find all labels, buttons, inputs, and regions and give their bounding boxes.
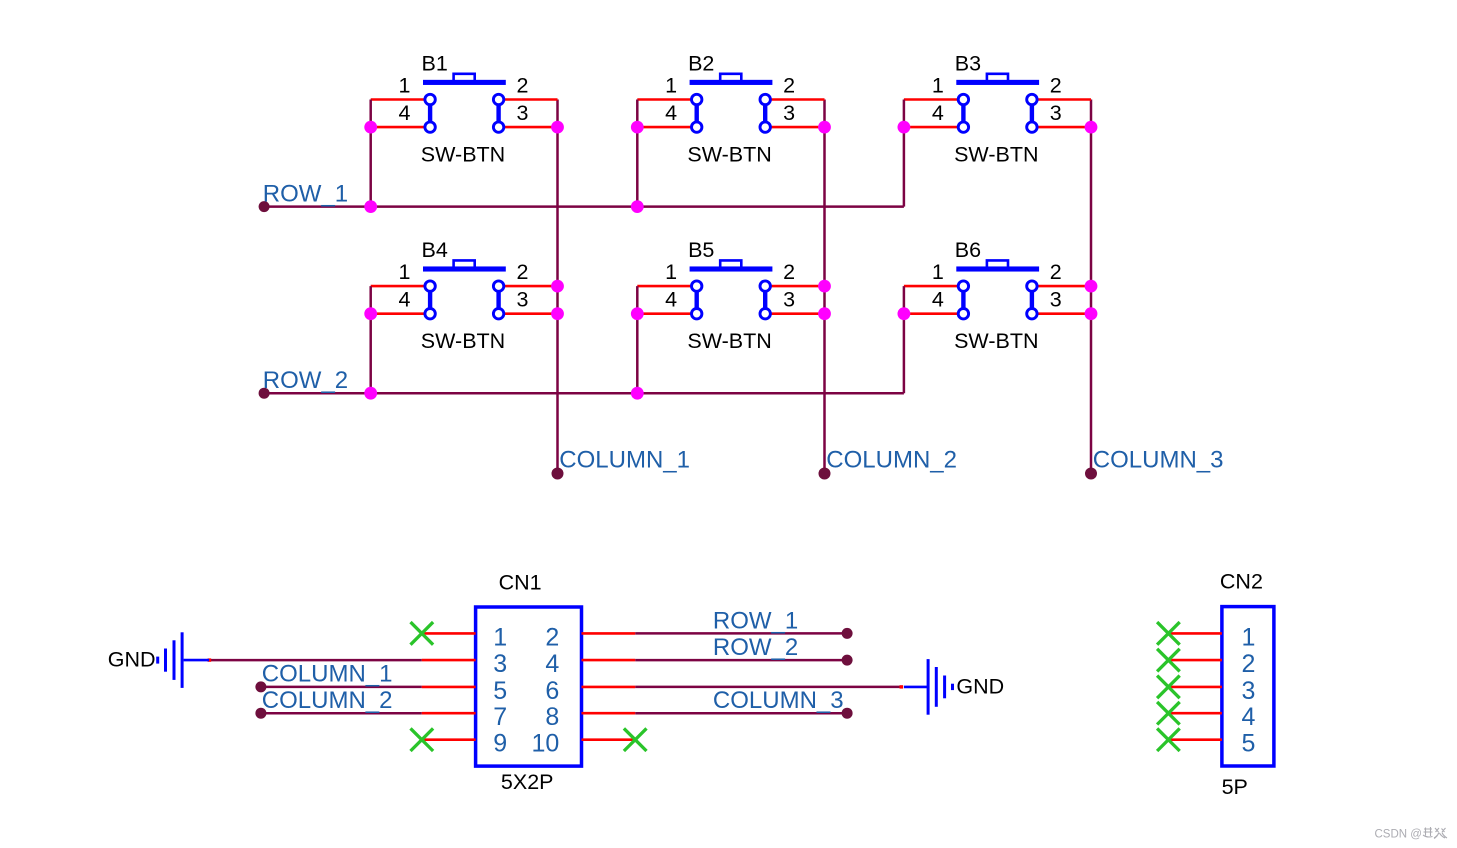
svg-text:4: 4 bbox=[665, 101, 677, 125]
no-connect CN1 pin1 bbox=[411, 622, 434, 645]
junction B6 pin2 column bbox=[1085, 280, 1098, 293]
svg-text:3: 3 bbox=[1050, 101, 1062, 125]
wire B6 pin3 bbox=[1032, 312, 1091, 315]
pin 3 CN2 stub bbox=[1168, 686, 1222, 689]
wire COLUMN_2 to CN1 pin7 bbox=[261, 712, 422, 715]
svg-text:8: 8 bbox=[545, 703, 559, 731]
wire COLUMN_3 to CN1 pin8 bbox=[635, 712, 847, 715]
wire B4 pin3 bbox=[499, 312, 558, 315]
node COLUMN_2 end bbox=[819, 468, 831, 480]
node ROW_1 end bbox=[259, 201, 270, 212]
wire B2 to ROW_1 bbox=[636, 100, 639, 207]
svg-text:3: 3 bbox=[1050, 288, 1062, 312]
no-connect CN2 pin2 bbox=[1157, 649, 1180, 672]
wire B3 to ROW_1 bbox=[903, 100, 906, 207]
wire B3 pin3 bbox=[1032, 126, 1091, 129]
svg-text:4: 4 bbox=[665, 288, 677, 312]
pin 4 CN1 stub bbox=[582, 659, 636, 662]
junction B6 pin3 column bbox=[1085, 307, 1098, 320]
switch B5 bbox=[690, 260, 773, 313]
wire B2 pin2 bbox=[765, 98, 824, 101]
ground GND left bbox=[158, 632, 209, 688]
wire B4 pin2 bbox=[499, 285, 558, 288]
pin 2 CN1 stub bbox=[582, 632, 636, 635]
svg-text:1: 1 bbox=[399, 260, 411, 284]
svg-text:3: 3 bbox=[517, 101, 529, 125]
svg-text:2: 2 bbox=[545, 623, 559, 651]
svg-text:5: 5 bbox=[1241, 730, 1255, 758]
pins B5 bbox=[692, 281, 771, 319]
svg-text:4: 4 bbox=[399, 101, 411, 125]
svg-text:3: 3 bbox=[517, 288, 529, 312]
svg-text:B1: B1 bbox=[422, 52, 448, 76]
pin 2 CN2 stub bbox=[1168, 659, 1222, 662]
wire B2 pin1 bbox=[637, 98, 696, 101]
junction ROW_2 x2 bbox=[631, 387, 644, 400]
svg-text:SW-BTN: SW-BTN bbox=[421, 329, 505, 353]
svg-text:SW-BTN: SW-BTN bbox=[954, 143, 1038, 167]
pin 1 CN1 stub bbox=[422, 632, 476, 635]
svg-text:4: 4 bbox=[932, 288, 944, 312]
switch B6 bbox=[956, 260, 1039, 313]
svg-text:GND: GND bbox=[956, 674, 1004, 698]
wire B6 to ROW_2 bbox=[903, 286, 906, 393]
svg-text:1: 1 bbox=[932, 260, 944, 284]
junction B5 pin2 column bbox=[818, 280, 831, 293]
junction B2 pin4 bbox=[631, 121, 644, 134]
wire B4 pin1 bbox=[371, 285, 430, 288]
svg-text:3: 3 bbox=[783, 101, 795, 125]
no-connect CN1 pin10 bbox=[624, 728, 647, 751]
svg-text:1: 1 bbox=[493, 623, 507, 651]
no-connect CN2 pin3 bbox=[1157, 676, 1180, 699]
wire COLUMN_1 vertical bbox=[556, 100, 559, 474]
svg-text:3: 3 bbox=[783, 288, 795, 312]
svg-text:2: 2 bbox=[517, 260, 529, 284]
svg-text:9: 9 bbox=[493, 730, 507, 758]
svg-text:10: 10 bbox=[531, 730, 559, 758]
wire ROW_2 to CN1 pin4 bbox=[635, 659, 847, 662]
node ROW_2 end bbox=[259, 388, 270, 399]
pins B2 bbox=[692, 94, 771, 132]
wire COLUMN_2 vertical bbox=[823, 100, 826, 474]
junction ROW_2 x1 bbox=[364, 387, 377, 400]
junction B6 pin4 bbox=[898, 307, 911, 320]
svg-text:SW-BTN: SW-BTN bbox=[421, 143, 505, 167]
svg-text:4: 4 bbox=[932, 101, 944, 125]
svg-text:COLUMN_3: COLUMN_3 bbox=[1093, 447, 1224, 474]
svg-text:B6: B6 bbox=[955, 238, 981, 262]
wire B6 pin1 bbox=[904, 285, 964, 288]
junction B2 pin3 column bbox=[818, 121, 831, 134]
pin 7 CN1 stub bbox=[422, 712, 476, 715]
wire ROW_2 bus bbox=[264, 392, 904, 395]
wire B5 pin1 bbox=[637, 285, 696, 288]
node COLUMN_3 end bbox=[1085, 468, 1097, 480]
svg-text:1: 1 bbox=[1241, 623, 1255, 651]
pin 8 CN1 stub bbox=[582, 712, 636, 715]
pin 4 CN2 stub bbox=[1168, 712, 1222, 715]
svg-text:CN2: CN2 bbox=[1220, 569, 1263, 593]
svg-text:5P: 5P bbox=[1222, 775, 1248, 799]
svg-text:GND: GND bbox=[108, 648, 156, 672]
wire GND to CN1 pin3 bbox=[209, 659, 422, 662]
no-connect CN2 pin1 bbox=[1157, 622, 1180, 645]
node ROW_1 end bottom bbox=[842, 628, 853, 639]
svg-text:2: 2 bbox=[1241, 650, 1255, 678]
no-connect CN2 pin4 bbox=[1157, 702, 1180, 725]
wire B2 pin4 bbox=[637, 126, 696, 129]
wire B1 to ROW_1 bbox=[369, 100, 372, 207]
connector CN2 bbox=[1222, 607, 1274, 766]
svg-text:2: 2 bbox=[783, 260, 795, 284]
ground GND right bbox=[904, 659, 953, 715]
junction B4 pin4 bbox=[364, 307, 377, 320]
svg-text:B4: B4 bbox=[422, 238, 448, 262]
svg-text:CN1: CN1 bbox=[499, 571, 542, 595]
svg-text:2: 2 bbox=[1050, 73, 1062, 97]
svg-text:COLUMN_3: COLUMN_3 bbox=[713, 687, 844, 714]
node COLUMN_3 end bottom bbox=[842, 708, 853, 719]
node ROW_2 end bottom bbox=[842, 655, 853, 666]
pin 9 CN1 stub bbox=[422, 738, 476, 741]
svg-text:1: 1 bbox=[399, 73, 411, 97]
wire B3 pin2 bbox=[1032, 98, 1091, 101]
svg-text:B5: B5 bbox=[688, 238, 714, 262]
wire B5 pin4 bbox=[637, 312, 696, 315]
junction B4 pin3 column bbox=[551, 307, 564, 320]
wire ROW_1 bus bbox=[264, 205, 904, 208]
svg-text:1: 1 bbox=[665, 260, 677, 284]
wire ROW_1 to CN1 pin2 bbox=[635, 632, 847, 635]
svg-text:2: 2 bbox=[1050, 260, 1062, 284]
pins B1 bbox=[425, 94, 504, 132]
wire B5 pin2 bbox=[765, 285, 824, 288]
wire B3 pin1 bbox=[904, 98, 964, 101]
svg-text:COLUMN_2: COLUMN_2 bbox=[262, 687, 393, 714]
svg-text:CSDN @: CSDN @ bbox=[1375, 828, 1422, 840]
junction B1 pin3 column bbox=[551, 121, 564, 134]
pin 1 CN2 stub bbox=[1168, 632, 1222, 635]
pin 5 CN1 stub bbox=[422, 686, 476, 689]
junction B1 pin4 bbox=[364, 121, 377, 134]
switch B2 bbox=[690, 74, 773, 127]
no-connect CN1 pin9 bbox=[411, 728, 434, 751]
pins B4 bbox=[425, 281, 504, 319]
svg-text:SW-BTN: SW-BTN bbox=[954, 329, 1038, 353]
wire B5 to ROW_2 bbox=[636, 286, 639, 393]
svg-text:4: 4 bbox=[1241, 703, 1255, 731]
node COLUMN_1 end bbox=[552, 468, 564, 480]
svg-text:1: 1 bbox=[665, 73, 677, 97]
junction ROW_1 x1 bbox=[364, 200, 377, 213]
svg-text:ROW_1: ROW_1 bbox=[263, 181, 348, 208]
wire B4 pin4 bbox=[371, 312, 430, 315]
svg-text:6: 6 bbox=[545, 677, 559, 705]
svg-text:SW-BTN: SW-BTN bbox=[687, 329, 771, 353]
node COLUMN_1 end bottom bbox=[255, 681, 266, 692]
wire B5 pin3 bbox=[765, 312, 824, 315]
svg-text:ROW_2: ROW_2 bbox=[263, 367, 348, 394]
junction ROW_1 x2 bbox=[631, 200, 644, 213]
wire B1 pin1 bbox=[371, 98, 430, 101]
wire B6 pin2 bbox=[1032, 285, 1091, 288]
pin 3 CN1 stub bbox=[422, 659, 476, 662]
svg-text:COLUMN_1: COLUMN_1 bbox=[559, 447, 690, 474]
junction B3 pin4 bbox=[898, 121, 911, 134]
switch B3 bbox=[956, 74, 1039, 127]
connector CN1 bbox=[476, 607, 582, 766]
pin 10 CN1 stub bbox=[582, 738, 636, 741]
wire B1 pin3 bbox=[499, 126, 558, 129]
svg-text:2: 2 bbox=[517, 73, 529, 97]
wire COLUMN_3 vertical bbox=[1090, 100, 1093, 474]
pins B3 bbox=[958, 94, 1037, 132]
svg-text:ROW_2: ROW_2 bbox=[713, 634, 798, 661]
svg-text:COLUMN_2: COLUMN_2 bbox=[826, 447, 957, 474]
svg-text:3: 3 bbox=[493, 650, 507, 678]
svg-text:5: 5 bbox=[493, 677, 507, 705]
svg-text:3: 3 bbox=[1241, 677, 1255, 705]
wire B1 pin4 bbox=[371, 126, 430, 129]
wire B6 pin4 bbox=[904, 312, 964, 315]
wire B4 to ROW_2 bbox=[369, 286, 372, 393]
wire COLUMN_1 to CN1 pin5 bbox=[261, 686, 422, 689]
svg-text:1: 1 bbox=[932, 73, 944, 97]
svg-text:SW-BTN: SW-BTN bbox=[687, 143, 771, 167]
svg-text:B2: B2 bbox=[688, 52, 714, 76]
node COLUMN_2 end bottom bbox=[255, 708, 266, 719]
no-connect CN2 pin5 bbox=[1157, 728, 1180, 751]
wire B3 pin4 bbox=[904, 126, 964, 129]
switch B4 bbox=[423, 260, 506, 313]
junction B3 pin3 column bbox=[1085, 121, 1098, 134]
junction B5 pin4 bbox=[631, 307, 644, 320]
svg-text:4: 4 bbox=[399, 288, 411, 312]
wire B2 pin3 bbox=[765, 126, 824, 129]
svg-text:COLUMN_1: COLUMN_1 bbox=[262, 661, 393, 688]
svg-text:2: 2 bbox=[783, 73, 795, 97]
svg-text:B3: B3 bbox=[955, 52, 981, 76]
wire B1 pin2 bbox=[499, 98, 558, 101]
pins B6 bbox=[958, 281, 1037, 319]
pin 5 CN2 stub bbox=[1168, 738, 1222, 741]
wire CN1 pin6 to GND bbox=[635, 686, 902, 689]
svg-text:5X2P: 5X2P bbox=[501, 770, 554, 794]
svg-text:ROW_1: ROW_1 bbox=[713, 608, 798, 635]
switch B1 bbox=[423, 74, 506, 127]
junction B5 pin3 column bbox=[818, 307, 831, 320]
svg-text:7: 7 bbox=[493, 703, 507, 731]
pin 6 CN1 stub bbox=[582, 686, 636, 689]
svg-text:4: 4 bbox=[545, 650, 559, 678]
junction B4 pin2 column bbox=[551, 280, 564, 293]
